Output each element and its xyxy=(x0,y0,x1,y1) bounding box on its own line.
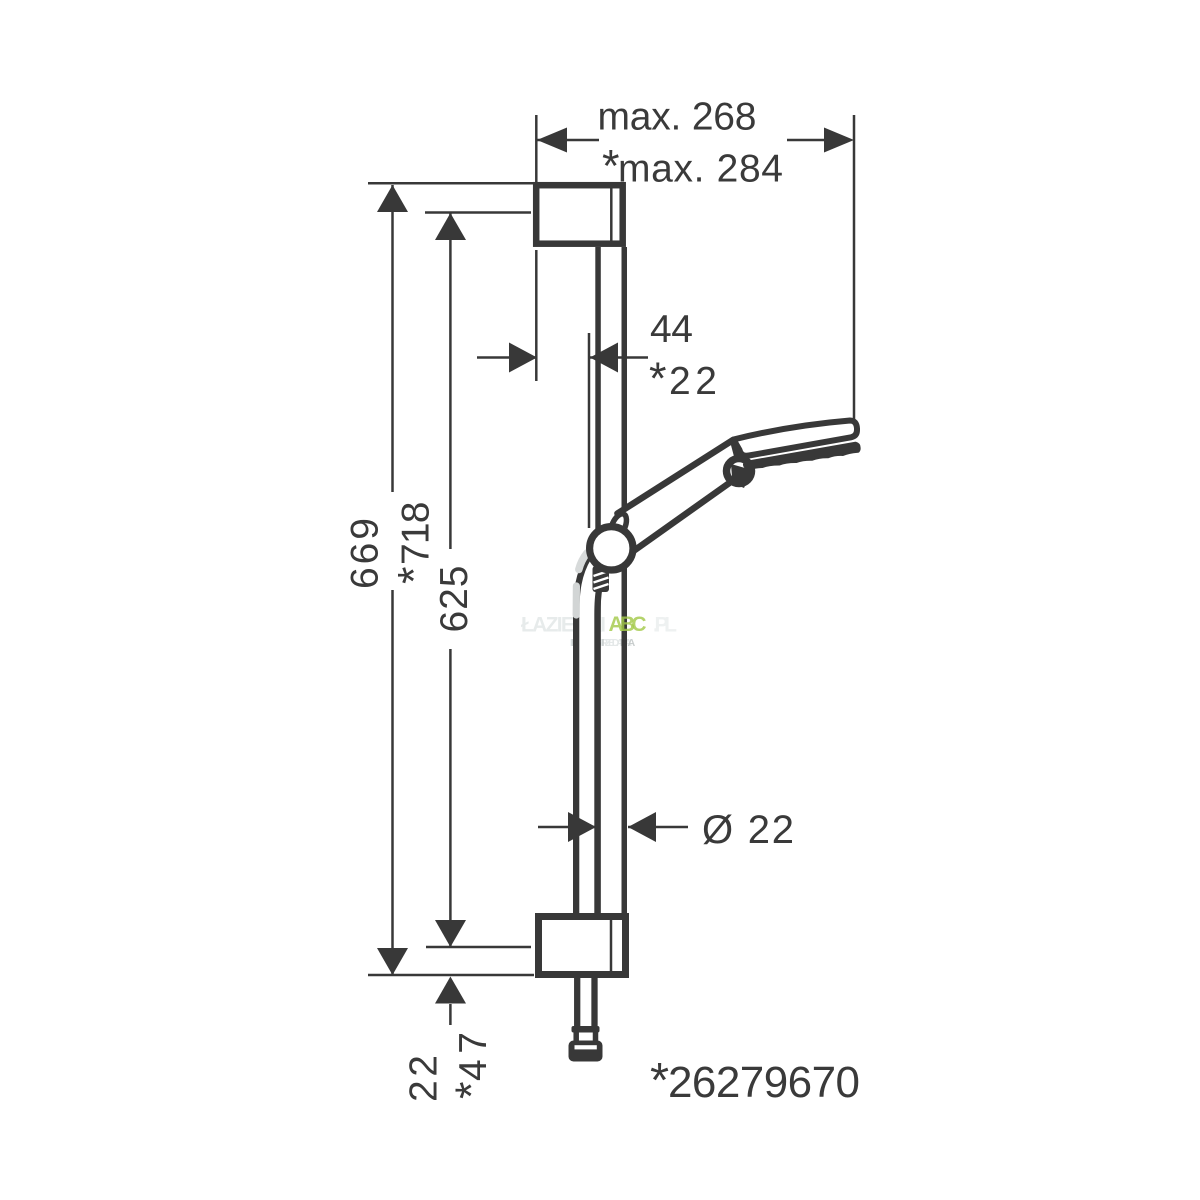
svg-text:669: 669 xyxy=(344,518,387,589)
extension line y=947 xyxy=(426,946,531,949)
arrow right of max268 xyxy=(824,128,854,153)
shower head spray face xyxy=(745,444,859,469)
dim line d22 left xyxy=(538,826,596,829)
dim line 44 right xyxy=(590,356,648,359)
watermark fade over hose xyxy=(576,553,587,615)
svg-text:718: 718 xyxy=(395,502,438,566)
svg-text:.PL: .PL xyxy=(653,614,677,637)
bar left line xyxy=(595,247,601,917)
arrow 669 bottom xyxy=(377,948,408,975)
hose nut xyxy=(569,1041,603,1062)
cone at head base xyxy=(727,459,752,484)
dimension line 669/*718 xyxy=(391,185,394,492)
arrow d22 left xyxy=(568,812,596,842)
slider ring xyxy=(590,527,633,570)
arrow 44 left xyxy=(509,343,537,373)
dimension line 625 xyxy=(449,213,452,549)
arrow 22 bottom up xyxy=(435,977,466,1004)
arrow 44 right xyxy=(590,343,618,373)
svg-text:44: 44 xyxy=(650,308,693,351)
clip on slider xyxy=(607,511,629,540)
extension line x=589 xyxy=(588,333,591,528)
wall bracket bottom xyxy=(539,917,626,975)
bracket bottom inner line xyxy=(610,917,613,974)
svg-text:*: * xyxy=(446,1081,497,1099)
extension line wall left x=536 xyxy=(535,115,538,182)
svg-text:625: 625 xyxy=(433,566,476,633)
hose knurl hatch xyxy=(593,566,610,592)
svg-text:max. 268: max. 268 xyxy=(598,96,757,139)
dim line max268 right xyxy=(787,139,826,142)
extension line y=975 xyxy=(368,974,534,977)
svg-text:*: * xyxy=(649,353,667,404)
collar side walls xyxy=(573,1032,579,1041)
dim line max268 left xyxy=(537,139,599,142)
arrow d22 right xyxy=(628,812,656,842)
svg-text:*: * xyxy=(389,566,440,584)
arrow 625 bottom xyxy=(435,920,466,947)
svg-text:Ø 22: Ø 22 xyxy=(702,808,794,852)
hose below bracket xyxy=(577,974,594,1028)
cone wedge xyxy=(731,464,752,488)
arrow 669 top xyxy=(377,185,408,212)
shower head top band xyxy=(734,421,858,456)
arrow 625 top xyxy=(435,213,466,240)
bar right line xyxy=(622,247,628,917)
svg-text:max. 284: max. 284 xyxy=(618,148,783,191)
extension line y=183 top xyxy=(368,182,533,185)
handle of handshower xyxy=(618,440,743,551)
wall bracket top xyxy=(536,185,623,244)
extension line y=212 xyxy=(425,211,531,214)
svg-text:*: * xyxy=(602,141,620,192)
svg-text:*: * xyxy=(650,1054,669,1108)
dim line 44 left xyxy=(477,356,537,359)
nut slot xyxy=(575,1045,597,1049)
dim line 22 bottom tail xyxy=(449,1004,452,1025)
extension line right x=854 xyxy=(853,115,856,421)
bracket top inner line xyxy=(610,185,613,244)
svg-text:26279670: 26279670 xyxy=(668,1058,860,1107)
arrow left of max268 xyxy=(537,128,567,153)
hose xyxy=(587,563,598,916)
hose collar xyxy=(572,1026,600,1033)
svg-text:ABC: ABC xyxy=(609,613,647,636)
dim line d22 right xyxy=(628,826,688,829)
